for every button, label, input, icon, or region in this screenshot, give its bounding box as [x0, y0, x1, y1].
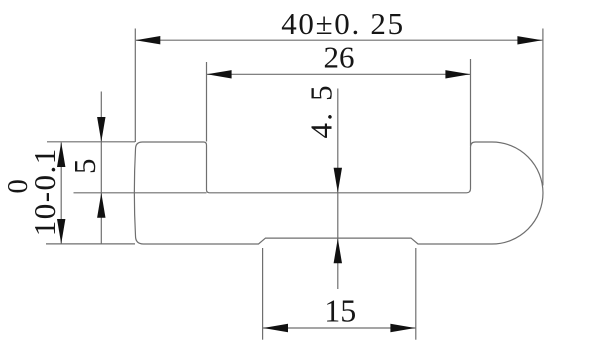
extension line top edge for 5/10 dims	[47, 141, 135, 143]
extension line left of 40 dim	[134, 29, 136, 143]
arrow 5 up	[97, 193, 105, 218]
svg-text:15: 15	[324, 293, 356, 329]
arrow 40 right	[517, 36, 542, 44]
extension line left of 26 dim	[206, 62, 208, 142]
dimension line 5	[100, 92, 102, 244]
dimension line 26	[207, 73, 470, 75]
dimension line 4.5 vertical	[337, 89, 339, 290]
extension line bottom edge for 10 dim	[46, 243, 135, 245]
arrow 4.5 up	[334, 238, 342, 263]
part profile outline	[134, 142, 543, 244]
extension line right of 15 dim	[415, 248, 417, 340]
svg-text:4. 5: 4. 5	[304, 83, 339, 138]
extension line right of 26 dim	[470, 59, 472, 146]
svg-text:0: 0	[2, 179, 34, 194]
svg-text:5: 5	[67, 159, 102, 175]
arrow 10 up	[57, 142, 65, 167]
arrow 40 left	[136, 36, 161, 44]
dimension line 40	[136, 39, 543, 41]
extension line left of 15 dim	[262, 248, 264, 340]
svg-text:26: 26	[324, 40, 355, 75]
dimension line 10	[60, 143, 62, 244]
arrow 5 down	[97, 117, 105, 142]
arrow 26 left	[207, 70, 232, 78]
dimension line 15	[263, 327, 416, 329]
arrow 15 right	[390, 324, 415, 332]
svg-text:40±0. 25: 40±0. 25	[281, 6, 405, 41]
arrow 26 right	[445, 70, 470, 78]
arrow 10 down	[57, 219, 65, 244]
extension line right of 40 dim	[542, 29, 544, 186]
arrow 15 left	[263, 324, 288, 332]
arrow 4.5 down	[334, 168, 342, 193]
extension line channel floor for 5 dim	[74, 192, 207, 194]
